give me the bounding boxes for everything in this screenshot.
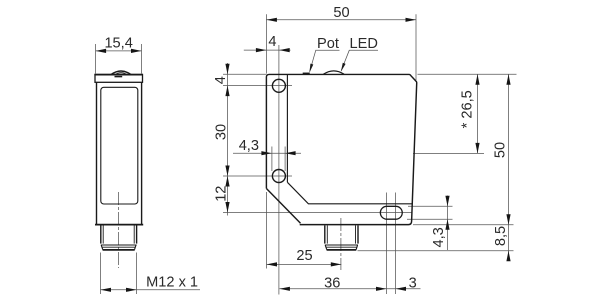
svg-text:30: 30: [214, 124, 230, 140]
svg-text:50: 50: [493, 142, 509, 158]
svg-text:4: 4: [213, 76, 229, 84]
svg-text:4,3: 4,3: [239, 138, 259, 154]
svg-text:Pot: Pot: [317, 36, 339, 52]
svg-text:50: 50: [333, 5, 349, 21]
svg-text:* 26,5: * 26,5: [459, 90, 475, 128]
svg-text:4,3: 4,3: [431, 227, 447, 247]
svg-text:25: 25: [296, 248, 312, 264]
svg-text:36: 36: [324, 276, 340, 292]
svg-text:8,5: 8,5: [493, 226, 509, 246]
svg-text:LED: LED: [350, 36, 378, 52]
svg-text:M12 x 1: M12 x 1: [146, 274, 198, 290]
svg-text:3: 3: [409, 275, 417, 291]
svg-text:15,4: 15,4: [104, 36, 132, 52]
svg-text:12: 12: [214, 186, 230, 202]
svg-text:4: 4: [268, 34, 276, 50]
